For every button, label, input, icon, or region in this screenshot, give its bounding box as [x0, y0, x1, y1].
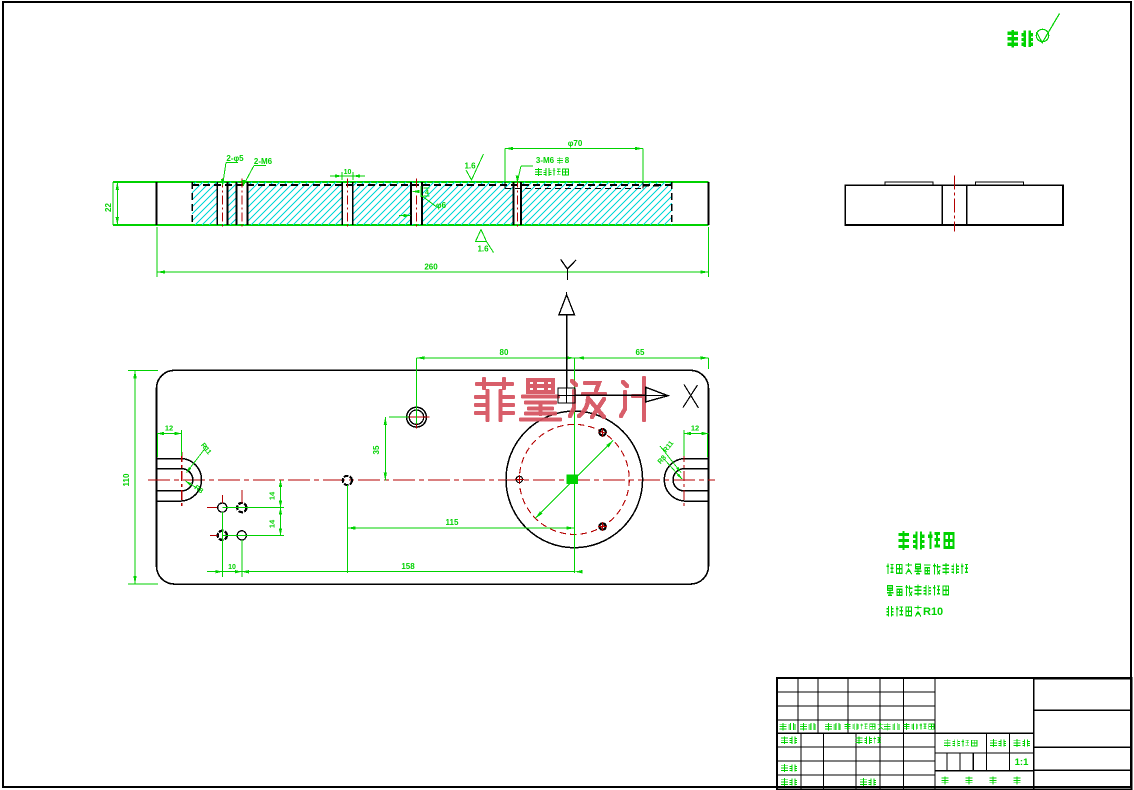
svg-text:14: 14: [268, 491, 277, 500]
svg-text:2-M6: 2-M6: [254, 157, 273, 166]
diameter dim line: [535, 441, 613, 519]
svg-text:80: 80: [500, 348, 509, 357]
svg-text:14: 14: [268, 519, 277, 528]
dim 115: [346, 485, 348, 573]
section black edges: [157, 182, 709, 225]
X label: [683, 385, 699, 409]
hole channels (white): [217, 183, 227, 224]
small hole on centerline: [343, 476, 352, 485]
工艺 批准: [781, 778, 797, 786]
svg-text:3-M6: 3-M6: [536, 156, 555, 165]
dim 12 left: [157, 433, 182, 435]
阶段标记 重量 比例: [944, 739, 977, 747]
审核: [781, 764, 797, 772]
svg-text:65: 65: [636, 348, 645, 357]
svg-text:260: 260: [424, 263, 438, 272]
plan view outline: [157, 370, 709, 584]
bolt circle dashed: [519, 424, 629, 534]
dim phi70: [505, 148, 643, 150]
dim 80 / 65 top: [417, 357, 709, 359]
side view channel: [941, 185, 943, 225]
note 其余 (rest surfaces): [1007, 30, 1033, 48]
recess phi70 dashed: [505, 188, 643, 190]
svg-text:1:1: 1:1: [1015, 757, 1029, 768]
svg-text:35: 35: [372, 445, 381, 454]
X axis arrow: [575, 394, 646, 396]
svg-text:22: 22: [104, 203, 113, 212]
dim 110: [134, 370, 136, 584]
设计 标准化: [781, 736, 797, 744]
dim 260: [156, 227, 158, 277]
dim 22: [116, 182, 118, 225]
section label Y: [561, 259, 576, 280]
section view outline: [113, 182, 709, 225]
section hole walls + centerlines: [216, 182, 218, 225]
svg-text:8: 8: [565, 156, 570, 165]
labels row 标记 处数 分区 更改文件号 签名 年、月、日: [780, 723, 796, 731]
dim 12 right: [684, 433, 709, 435]
svg-text:10: 10: [344, 169, 352, 176]
svg-text:12: 12: [165, 424, 173, 433]
hidden dashed top line: [192, 184, 672, 186]
svg-text:2-φ5: 2-φ5: [226, 154, 244, 163]
counterbore annotation: [412, 190, 420, 193]
共 张 第 张: [942, 777, 949, 785]
large bore circle: [506, 411, 643, 548]
svg-text:4: 4: [425, 190, 429, 197]
side view centerline: [954, 175, 956, 231]
svg-text:R10: R10: [923, 606, 943, 618]
dim 10 + 158 bottom: [221, 512, 223, 577]
dim 14 14: [280, 480, 282, 535]
R11 R8 labels left: [187, 446, 208, 473]
main centerline: [148, 479, 715, 481]
dim 35: [384, 417, 386, 480]
section hatch: [192, 182, 672, 225]
watermark 菲墨设计: [476, 378, 657, 420]
left slot: [157, 459, 202, 502]
svg-text:φ6: φ6: [436, 201, 447, 210]
技术要求 title: [898, 531, 953, 550]
bolt holes M6: [599, 523, 605, 529]
side view body: [845, 185, 1063, 225]
req line 2: [887, 585, 949, 596]
R11 R8 labels right: [660, 446, 681, 473]
svg-text:110: 110: [122, 473, 131, 486]
svg-text:12: 12: [691, 424, 699, 433]
counterbore hole top: [407, 407, 427, 427]
title block: [777, 678, 1132, 789]
svg-text:115: 115: [446, 518, 459, 527]
side view tab right: [976, 182, 1024, 185]
side view tab left: [885, 182, 933, 185]
req line 1: [886, 563, 968, 574]
dim 10 above hole3: [341, 172, 343, 180]
origin symbol: [558, 388, 575, 403]
Y axis arrow: [566, 315, 568, 388]
hole group 2-phi5 / 2-M6: [218, 503, 227, 512]
svg-text:10: 10: [228, 564, 236, 571]
svg-text:1.6: 1.6: [477, 245, 489, 254]
svg-text:φ70: φ70: [568, 139, 583, 148]
surface finish check symbol: [1036, 14, 1059, 43]
svg-text:1.6: 1.6: [464, 162, 476, 171]
req line 3: [886, 606, 921, 617]
roughness 1.6 bottom: [476, 230, 487, 242]
svg-text:158: 158: [401, 562, 415, 571]
right slot: [664, 459, 708, 502]
